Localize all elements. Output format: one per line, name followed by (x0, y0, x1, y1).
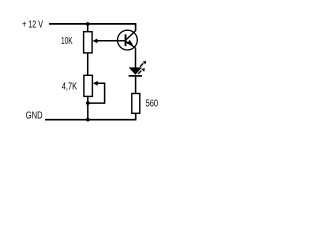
resistor R1 10K potentiometer body (84, 32, 93, 53)
diode D1 light arrow lower head (141, 68, 145, 72)
wire rail to R1 top (87, 24, 89, 32)
resistor R2 wiper arrow (93, 81, 98, 86)
diode D1 LED cathode bar (129, 75, 142, 77)
diode D1 light arrow upper head (143, 61, 147, 65)
wire LED cathode to R3 top (135, 77, 137, 94)
transistor Q1 emitter arrow (127, 40, 133, 45)
wire emitter to LED anode (135, 48, 137, 68)
wire R1 wiper to transistor base (97, 40, 125, 42)
diode D1 light arrow upper shaft (140, 63, 143, 66)
diode D1 LED triangle (129, 67, 142, 74)
svg-text:10K: 10K (61, 36, 73, 47)
node junction dot B (wiper loop) (86, 101, 90, 105)
node junction dot C (GND rail) (86, 118, 90, 122)
wire R1 bottom to R2 top (87, 53, 89, 75)
resistor R2 4,7K potentiometer body (84, 75, 93, 96)
svg-text:+ 12 V: + 12 V (22, 19, 43, 30)
resistor R1 wiper arrow (93, 39, 98, 44)
svg-text:560: 560 (146, 99, 159, 110)
diode D1 light arrow lower shaft (138, 71, 141, 74)
svg-text:4,7K: 4,7K (62, 81, 78, 92)
wire GND rail (45, 119, 136, 121)
wire collector drop from rail (135, 23, 137, 31)
wire R2 bottom to GND rail (87, 96, 89, 119)
resistor R3 560 body (132, 94, 140, 114)
wire +12V rail (49, 23, 136, 25)
transistor Q1 base bar (125, 34, 127, 46)
node junction dot A (rail to R1) (86, 22, 90, 26)
wire GND rail up to R3 bottom (135, 113, 137, 120)
transistor Q1 collector diagonal (126, 31, 136, 41)
svg-text:GND: GND (26, 111, 43, 122)
transistor Q1 emitter diagonal (126, 41, 136, 48)
wire R2 wiper loop to bottom (88, 83, 105, 103)
transistor Q1 circle (118, 30, 138, 50)
